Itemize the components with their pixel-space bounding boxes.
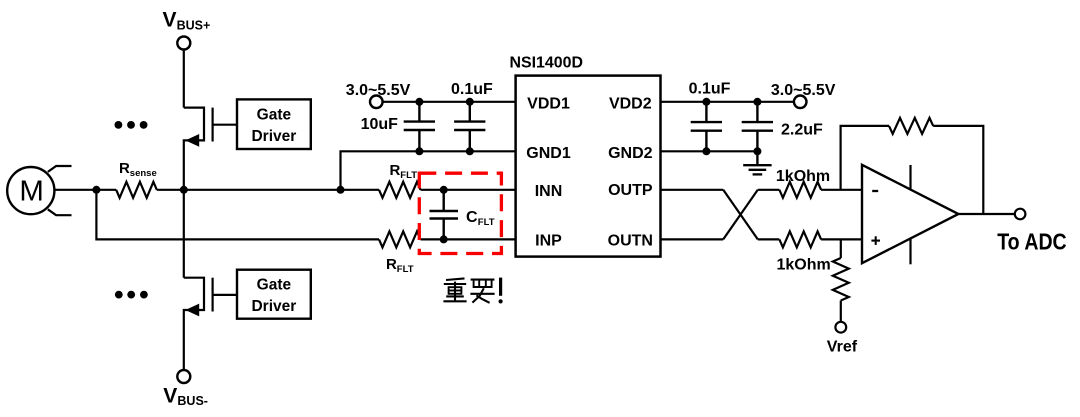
svg-text:R: R: [390, 162, 401, 179]
svg-text:FLT: FLT: [397, 264, 414, 275]
svg-text:VDD2: VDD2: [609, 95, 652, 112]
terminal VDD1 supply: [370, 96, 383, 109]
svg-text:1kOhm: 1kOhm: [776, 168, 830, 185]
svg-text:10uF: 10uF: [361, 116, 399, 133]
svg-text:BUS-: BUS-: [177, 394, 208, 408]
wire motor to node: [54, 189, 96, 191]
wire OUTN: [661, 238, 724, 240]
svg-text:C: C: [466, 209, 478, 226]
wire OUTP: [661, 189, 724, 191]
highlight box red dashed: [419, 173, 501, 253]
terminal VBUS+: [177, 37, 190, 50]
wire VDD1: [383, 101, 516, 103]
svg-text:Gate: Gate: [257, 106, 292, 123]
wire node down to Q2 drain: [183, 190, 185, 278]
resistor RFLT bottom: [379, 231, 421, 247]
svg-text:R: R: [386, 256, 397, 273]
svg-text:M: M: [19, 176, 44, 208]
resistor R3 feedback: [889, 118, 933, 134]
junction dots CFLT: [440, 186, 448, 194]
capacitor C3 0.1uF right: [691, 102, 722, 152]
svg-text:To ADC: To ADC: [997, 228, 1067, 254]
wire node to GND1 branch: [184, 189, 341, 191]
svg-text:INP: INP: [535, 233, 562, 250]
transistor Q2 (lower MOSFET): [184, 278, 237, 370]
wire VDD2: [661, 101, 794, 103]
svg-text:V: V: [163, 9, 177, 32]
svg-text:VDD1: VDD1: [527, 95, 570, 112]
svg-text:BUS+: BUS+: [177, 18, 211, 32]
terminal VBUS-: [177, 370, 190, 383]
terminal To ADC: [1015, 209, 1026, 220]
resistor RFLT top: [341, 189, 380, 191]
svg-text:3.0~5.5V: 3.0~5.5V: [771, 82, 836, 99]
wire output: [958, 213, 1014, 215]
svg-text:0.1uF: 0.1uF: [451, 81, 493, 98]
svg-text:FLT: FLT: [478, 217, 495, 228]
svg-text:INN: INN: [535, 183, 563, 200]
capacitor C2 0.1uF: [454, 102, 485, 152]
wire GND2: [661, 150, 758, 152]
node junction dot left shunt: [92, 186, 100, 194]
svg-text:GND1: GND1: [526, 145, 571, 162]
svg-text:Driver: Driver: [251, 298, 296, 315]
svg-text:2.2uF: 2.2uF: [781, 122, 823, 139]
capacitor CFLT: [430, 190, 459, 240]
wire GND1: [341, 151, 516, 190]
svg-text:OUTN: OUTN: [608, 233, 653, 250]
resistor R2 1kOhm bottom: [758, 238, 780, 240]
svg-text:1kOhm: 1kOhm: [777, 256, 831, 273]
svg-text:sense: sense: [130, 168, 157, 179]
dots lower phases: [115, 291, 123, 299]
junction dots GND1 line: [415, 147, 423, 155]
ground symbol: [743, 165, 771, 174]
svg-text:Driver: Driver: [251, 128, 296, 145]
feedback loop wires: [841, 126, 889, 190]
svg-text:Vref: Vref: [827, 338, 858, 355]
junction dots VDD1 line: [415, 98, 423, 106]
wire crossover X: [723, 190, 758, 240]
svg-text:0.1uF: 0.1uF: [689, 81, 731, 98]
svg-text:GND2: GND2: [608, 145, 653, 162]
motor phase lead top: [48, 166, 72, 172]
op-amp U4: [862, 165, 958, 263]
terminal Vref: [835, 322, 846, 333]
svg-text:NSI1400D: NSI1400D: [510, 55, 584, 72]
motor M1: [7, 167, 54, 214]
svg-text:FLT: FLT: [400, 170, 417, 181]
transistor Q1 (upper MOSFET): [184, 108, 237, 190]
svg-text:R: R: [119, 160, 130, 177]
gate driver box U2 (upper): [237, 99, 311, 149]
resistor R1 1kOhm top: [758, 189, 780, 191]
gate driver box U3 (lower): [237, 270, 311, 319]
op-amp power stubs: [909, 165, 911, 190]
dots upper phases: [115, 121, 123, 129]
capacitor C4 2.2uF: [742, 102, 773, 165]
resistor R4 to Vref: [840, 239, 842, 258]
op-amp minus: [872, 190, 878, 192]
junction dots GND2 line: [702, 147, 710, 155]
label zhongyao! (important): [443, 278, 494, 302]
wire lower rail down/right to INP: [96, 190, 379, 240]
terminal VDD2 supply: [794, 96, 807, 109]
capacitor C1 10uF: [404, 102, 435, 152]
node junction dot shunt right: [180, 186, 188, 194]
junction dots VDD2 line: [702, 98, 710, 106]
motor phase lead bottom: [48, 209, 72, 215]
svg-text:OUTP: OUTP: [608, 182, 653, 199]
op-amp plus: [871, 240, 880, 242]
wire VBUS+ to Q1 drain: [183, 50, 185, 108]
svg-text:Gate: Gate: [257, 276, 292, 293]
junction dot GND1 branch: [337, 186, 345, 194]
svg-text:V: V: [163, 385, 177, 408]
resistor Rsense: [96, 189, 116, 191]
op-amp/isolator IC U1 NSI1400D: [516, 76, 661, 257]
